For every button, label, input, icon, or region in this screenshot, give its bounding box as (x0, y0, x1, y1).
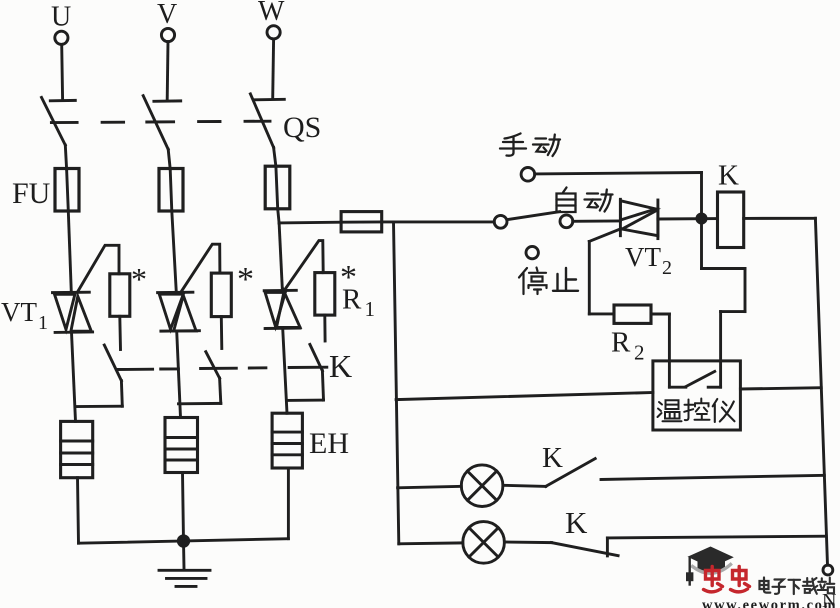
label thermostat (kong) glyph (684, 399, 709, 421)
watermark graduation cap body (698, 560, 726, 575)
lamp HL1 cross stroke 1 (468, 471, 497, 500)
wire manual terminal to K coil branch (535, 173, 702, 174)
resistor R* phase V (211, 273, 231, 317)
wire lamp 1 to contact (503, 485, 546, 486)
thermostat left stub foot (669, 386, 685, 389)
wire contact to jog phase W (322, 371, 323, 400)
heater EH U internal line 2 (61, 452, 93, 455)
fuse FU phase U (55, 169, 79, 212)
wire QS to FU phase V (168, 149, 170, 169)
node stop contact (526, 246, 538, 258)
label manual (shou-dong) glyph shou (500, 134, 526, 156)
svg-text:W: W (258, 0, 285, 27)
ground stem wire (182, 541, 185, 568)
left rail vertical wire (394, 222, 399, 544)
watermark text zi (773, 580, 786, 594)
wire down to step (744, 269, 747, 312)
triac VT2 gate diagonal (589, 229, 621, 242)
triac VT1 phase V gate diagonal (182, 244, 220, 290)
wire FU to VT1 phase U (68, 211, 71, 292)
switch QS pole U fixed contact bar (50, 99, 75, 102)
wire down into thermostat box (right stub) (719, 312, 722, 388)
watermark text zai (803, 578, 818, 594)
node selector pivot (auto switch) (494, 215, 507, 228)
svg-text:K: K (329, 348, 352, 384)
svg-text:www.eeworm.com: www.eeworm.com (702, 598, 837, 608)
triac VT1 phase V right triangle (174, 295, 196, 331)
wire FU to control-tap junction phase W (278, 209, 279, 223)
wire W-tap to control fuse (279, 221, 341, 225)
heater EH U internal line 3 (61, 463, 93, 466)
triac VT1 phase W gate diagonal (284, 241, 323, 291)
wire left rail to lamp 1 (398, 486, 462, 488)
wire VT1 U to EH U (72, 332, 76, 421)
QS linkage dash V-W (199, 120, 220, 123)
wire EH V to junction (183, 473, 184, 542)
wire control fuse to selector (382, 220, 495, 223)
lamp HL2 cross stroke 1 (469, 528, 498, 557)
wire resistor to contact phase U (118, 316, 122, 349)
jog wire branch-to-main phase W (287, 399, 324, 402)
watermark graduation cap board (688, 547, 734, 568)
wire lamp 2 to contact (504, 541, 551, 544)
contact K phase U blade (104, 345, 121, 381)
wire lamp1 contact to right rail (601, 475, 824, 479)
triac VT1 phase W bottom bar (265, 327, 300, 330)
triac VT1 phase V top bar (158, 291, 193, 294)
triac VT2 right bar (656, 200, 659, 239)
triac VT2 lower triangle (622, 210, 658, 236)
ground bar 2 (167, 577, 207, 580)
watermark graduation cap tassel (687, 558, 692, 585)
watermark logo chong #1 (red) (704, 567, 723, 592)
bottom neutral bus wire (79, 539, 289, 544)
wire junction to VT1 phase W (279, 223, 282, 291)
svg-text:*: * (131, 261, 147, 297)
switch selector blade (auto position) (507, 212, 559, 220)
resistor R2 (614, 305, 651, 323)
wire FU to VT1 phase V (172, 211, 177, 292)
wire VT1 W to EH W (283, 328, 287, 413)
triac VT1 phase U gate diagonal (78, 245, 120, 292)
relay coil K body (718, 192, 744, 248)
triac VT1 phase V left triangle (159, 294, 183, 329)
triac VT1 phase V bottom bar (161, 329, 200, 332)
wire gate to R2 (589, 312, 614, 315)
wire resistor to contact phase W (323, 315, 326, 341)
watermark text xia (789, 580, 801, 594)
wire K coil to right rail (744, 217, 816, 220)
junction dot neutral bus (178, 536, 188, 546)
ground bar 1 (159, 569, 210, 572)
svg-text:FU: FU (12, 177, 51, 210)
switch QS pole W blade (250, 94, 273, 148)
lamp HL2 body (463, 522, 505, 564)
svg-text:2: 2 (662, 257, 672, 279)
QS linkage tick pole W (245, 120, 270, 123)
wire horizontal to x745 (702, 267, 746, 270)
wire EH U to bus (78, 478, 79, 544)
fuse FU phase W (265, 166, 290, 209)
K linkage dash U-V (161, 367, 179, 370)
watermark text zhan (818, 578, 835, 594)
svg-text:*: * (237, 261, 254, 298)
triac VT2 left bar (619, 199, 622, 235)
K linkage tick phase U (116, 368, 152, 371)
contact K lamp1 blade (NO) (546, 459, 596, 487)
svg-text:K: K (718, 160, 739, 192)
right rail vertical wire (815, 218, 827, 565)
svg-text:R: R (611, 327, 631, 359)
QS linkage tick pole V (147, 120, 174, 123)
wire QS to FU phase U (65, 145, 66, 169)
heater EH U internal line 1 (61, 440, 93, 443)
heater EH W internal line 1 (272, 431, 302, 434)
triac VT1 phase W right triangle (277, 292, 301, 328)
label thermostat (wen) glyph (658, 400, 682, 421)
wire gate down (588, 241, 591, 314)
node U terminal (55, 31, 68, 44)
heater EH phase V body (165, 418, 198, 473)
wire thermostat box to right rail (740, 388, 821, 389)
node manual terminal (521, 168, 535, 182)
heater EH phase U body (61, 421, 93, 477)
heater EH W internal line 2 (272, 442, 302, 445)
QS linkage dash U-V (102, 121, 124, 124)
wire QS to FU phase W (274, 148, 276, 167)
node N terminal (bottom right) (823, 565, 833, 575)
watermark logo chong #2 (red) (731, 567, 750, 592)
svg-text:K: K (565, 505, 588, 540)
label auto (zi-dong) glyph dong (585, 190, 613, 212)
wire through fuse V (170, 169, 172, 211)
heater EH V internal line 3 (165, 459, 198, 462)
lamp HL1 body (461, 465, 503, 507)
resistor R1 phase W (315, 273, 335, 316)
triac VT1 phase W top bar (264, 289, 296, 292)
K linkage tick phase V (201, 367, 237, 370)
watermark graduation cap gray swoosh (693, 565, 731, 574)
heater EH V internal line 2 (165, 448, 198, 451)
contact K lamp2 fixed stub (606, 538, 609, 556)
svg-text:2: 2 (634, 341, 645, 365)
wire down into thermostat box (left stub) (668, 314, 671, 387)
switch QS pole U blade (42, 97, 66, 145)
wire resistor to contact phase V (220, 317, 223, 349)
wire through fuse U (67, 169, 69, 211)
wire left rail to lamp 2 (399, 541, 463, 545)
QS linkage tick pole U (51, 121, 77, 124)
wire R2 to corner (651, 313, 669, 316)
wire through fuse W (276, 166, 278, 208)
fuse control (horizontal) (341, 212, 382, 232)
node V terminal (161, 28, 174, 41)
contact K lamp2 blade (NC) (551, 543, 618, 556)
switch QS pole W fixed contact bar (254, 98, 284, 101)
node auto contact (560, 215, 573, 228)
triac VT1 phase U bottom bar (55, 331, 93, 334)
svg-text:EH: EH (309, 427, 349, 460)
resistor R* phase U (110, 274, 130, 317)
svg-text:U: U (51, 2, 71, 33)
label stop (ting-zhi) glyph zhi (553, 268, 578, 291)
ground bar 3 (176, 585, 196, 588)
label auto (zi-dong) glyph zi (557, 188, 576, 213)
heater EH W internal line 3 (272, 453, 302, 456)
svg-text:K: K (542, 442, 563, 474)
label manual (shou-dong) glyph dong (533, 135, 560, 157)
svg-text:VT: VT (625, 242, 661, 272)
wire step left (721, 310, 745, 313)
K linkage tick phase W (289, 366, 327, 369)
jog wire branch-to-main phase U (75, 405, 122, 408)
heater EH V internal line 1 (165, 436, 198, 439)
label thermostat (yi) glyph (713, 399, 735, 422)
triac VT1 phase U left triangle (55, 294, 75, 329)
contact K phase W blade (310, 344, 323, 370)
fuse FU phase V (159, 169, 183, 212)
wire contact to jog phase U (120, 381, 124, 407)
lamp HL2 cross stroke 2 (469, 528, 498, 557)
switch QS pole V fixed contact bar (154, 99, 181, 102)
thermostat internal switch blade (686, 371, 715, 386)
triac VT2 upper triangle (620, 201, 655, 220)
triac VT1 phase U right triangle (71, 296, 91, 331)
switch QS pole V blade (143, 96, 168, 150)
wire lamp2 contact to right rail (607, 536, 826, 538)
svg-text:R: R (342, 284, 362, 316)
svg-text:1: 1 (38, 312, 48, 334)
lamp HL1 cross stroke 2 (468, 471, 497, 500)
svg-text:1: 1 (365, 297, 376, 321)
svg-text:QS: QS (283, 111, 321, 144)
wire U terminal to QS (60, 44, 64, 99)
contact K phase V blade (206, 352, 220, 379)
label stop (ting-zhi) glyph ting (519, 268, 547, 295)
wire VT1 V to EH V (177, 331, 181, 418)
wire through control fuse (341, 220, 382, 223)
heater EH phase W body (272, 413, 302, 468)
wire VT2 to junction (658, 217, 718, 220)
watermark text dian (electronic download site) (760, 578, 771, 593)
junction dot manual/VT2/K (697, 214, 706, 223)
node W terminal (267, 26, 280, 39)
K linkage dash V-W (249, 366, 266, 369)
wire V terminal to QS (166, 42, 170, 101)
svg-text:VT: VT (1, 297, 37, 327)
wire left rail to thermostat box (396, 393, 653, 400)
jog wire branch-to-main phase V (179, 402, 221, 405)
svg-text:V: V (157, 0, 177, 30)
wire EH W to bus (287, 468, 290, 539)
wire junction down (K sense branch) (700, 219, 703, 269)
thermostat right stub foot (708, 386, 720, 389)
wire auto contact to VT2 (573, 219, 621, 222)
wire contact to jog phase V (220, 378, 221, 403)
triac VT1 phase W left triangle (265, 292, 285, 326)
triac VT1 phase U top bar (53, 291, 90, 294)
thermostat (wen-kong-yi) box (653, 361, 741, 430)
wire manual branch down to junction (700, 173, 703, 219)
wire W terminal to QS (271, 39, 275, 99)
